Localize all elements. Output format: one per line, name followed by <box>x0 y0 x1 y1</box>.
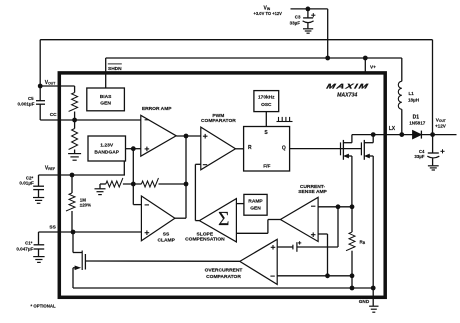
svg-text:V+: V+ <box>370 65 376 71</box>
svg-text:1.23V: 1.23V <box>100 143 114 149</box>
svg-text:GND: GND <box>359 299 370 304</box>
svg-text:33µF: 33µF <box>290 20 301 25</box>
svg-text:0.047µF: 0.047µF <box>16 246 33 251</box>
svg-text:VOUT: VOUT <box>45 80 56 86</box>
svg-text:C3: C3 <box>295 15 301 20</box>
svg-text:C1*: C1* <box>25 240 33 245</box>
svg-text:D1: D1 <box>413 114 420 120</box>
svg-text:Q: Q <box>282 146 286 152</box>
svg-text:COMPARATOR: COMPARATOR <box>201 118 236 124</box>
svg-text:COMPARATOR: COMPARATOR <box>206 274 241 280</box>
svg-text:RB: RB <box>360 239 366 245</box>
svg-text:SLOPE: SLOPE <box>197 232 214 238</box>
svg-text:GEN: GEN <box>250 205 261 211</box>
svg-text:RAMP: RAMP <box>248 198 263 204</box>
svg-text:GEN: GEN <box>100 101 111 107</box>
svg-text:F/F: F/F <box>263 163 270 169</box>
svg-text:VREF: VREF <box>45 165 55 171</box>
svg-text:C5: C5 <box>28 96 34 101</box>
svg-text:+3.0V TO +12V: +3.0V TO +12V <box>254 11 283 16</box>
svg-text:BANDGAP: BANDGAP <box>94 150 119 156</box>
svg-text:MAXIM: MAXIM <box>326 82 371 90</box>
svg-text:Σ: Σ <box>218 209 229 230</box>
svg-text:SS: SS <box>49 225 56 231</box>
svg-text:OVERCURRENT: OVERCURRENT <box>205 267 243 273</box>
svg-text:SENSE AMP: SENSE AMP <box>298 189 327 195</box>
svg-text:±20%: ±20% <box>80 203 91 208</box>
svg-text:1N5817: 1N5817 <box>409 121 426 126</box>
svg-text:BIAS: BIAS <box>100 94 112 100</box>
svg-text:MAX734: MAX734 <box>337 92 357 98</box>
svg-text:ERROR AMP: ERROR AMP <box>142 106 172 112</box>
svg-text:LX: LX <box>389 126 396 132</box>
svg-text:0.01µF: 0.01µF <box>19 181 34 186</box>
svg-text:0.001µF: 0.001µF <box>17 102 34 107</box>
svg-text:CLAMP: CLAMP <box>158 237 176 243</box>
svg-text:CURRENT-: CURRENT- <box>300 184 326 190</box>
svg-text:COMPENSATION: COMPENSATION <box>185 237 225 243</box>
svg-text:33µF: 33µF <box>414 154 424 159</box>
svg-text:18µH: 18µH <box>408 97 420 102</box>
svg-text:OSC: OSC <box>261 102 272 108</box>
svg-text:L1: L1 <box>409 91 415 96</box>
svg-text:R: R <box>248 145 252 151</box>
svg-text:* OPTIONAL: * OPTIONAL <box>31 304 56 309</box>
svg-text:SS: SS <box>163 231 170 237</box>
svg-text:C2*: C2* <box>26 175 34 180</box>
svg-text:PWM: PWM <box>212 113 224 119</box>
svg-text:SHDN: SHDN <box>108 66 122 72</box>
svg-text:+12V: +12V <box>435 123 447 128</box>
svg-text:1M: 1M <box>80 197 86 202</box>
svg-text:170kHz: 170kHz <box>258 94 275 100</box>
svg-text:CC: CC <box>50 112 57 118</box>
